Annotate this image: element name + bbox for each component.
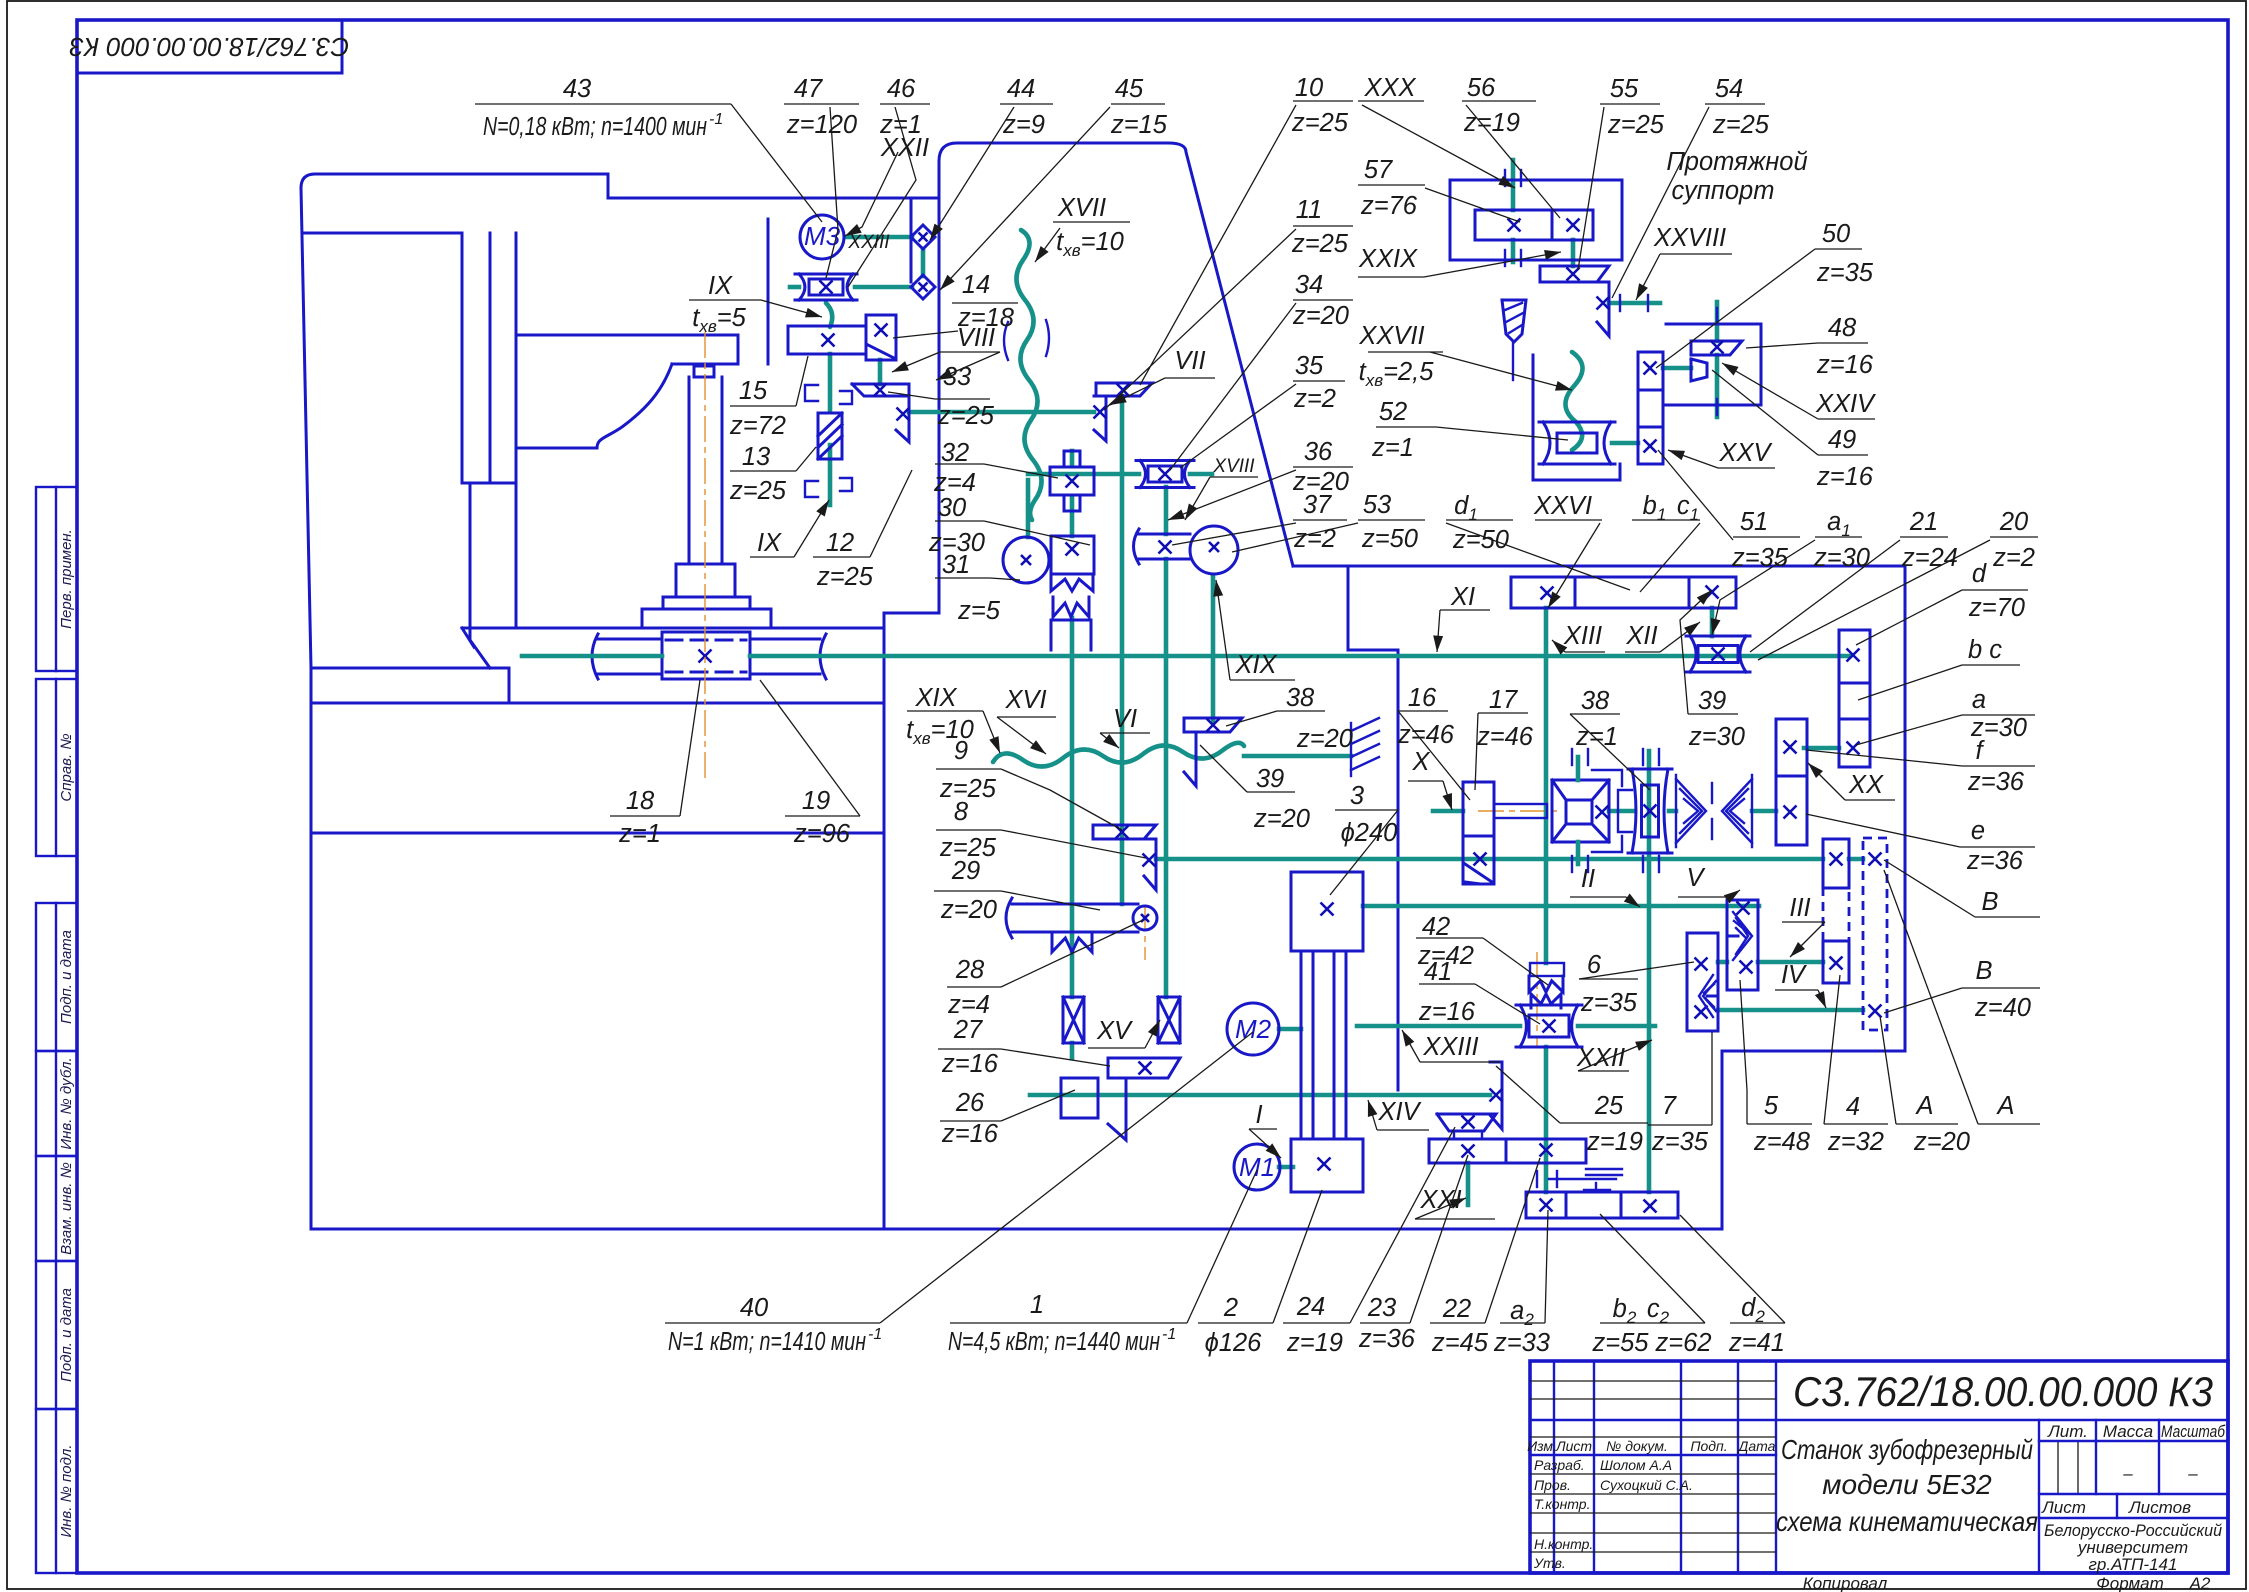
shaft XIV: [1030, 1093, 1490, 1098]
motor M2: [1227, 1003, 1279, 1055]
svg-text:XIX: XIX: [914, 684, 957, 712]
bed inner line: [311, 832, 884, 835]
broach screw upper: [1511, 160, 1516, 210]
svg-text:№ докум.: № докум.: [1606, 1438, 1668, 1454]
coupling link: [921, 249, 926, 276]
svg-text:Лит.: Лит.: [2047, 1422, 2088, 1441]
gear column 51 z=35: [1638, 352, 1663, 464]
svg-text:43: 43: [563, 75, 591, 103]
shaft III: [1718, 960, 1727, 965]
shaft XXIV vertical: [1715, 302, 1720, 341]
svg-text:17: 17: [1489, 686, 1518, 714]
svg-text:Станок зубофрезерный: Станок зубофрезерный: [1781, 1434, 2033, 1465]
bearing ticks XXVIII: [1619, 295, 1621, 311]
svg-text:z=30: z=30: [1813, 544, 1870, 572]
svg-text:z=96: z=96: [793, 820, 851, 848]
svg-text:IX: IX: [708, 272, 733, 300]
motor M1: [1234, 1144, 1280, 1190]
svg-text:XXVIII: XXVIII: [1653, 224, 1726, 252]
svg-text:z=15: z=15: [1110, 111, 1168, 139]
vertical shaft XV (screw): [1070, 618, 1075, 997]
svg-text:гр.АТП-141: гр.АТП-141: [2089, 1555, 2178, 1574]
svg-text:z=36: z=36: [1966, 847, 2024, 875]
svg-text:XVII: XVII: [1057, 194, 1106, 222]
svg-text:21: 21: [1909, 508, 1938, 536]
svg-text:XIV: XIV: [1377, 1098, 1421, 1126]
bed top edge: [311, 702, 884, 705]
svg-text:М2: М2: [1235, 1014, 1272, 1044]
screw nut right XV: [1158, 997, 1180, 1043]
svg-text:A: A: [1914, 1092, 1933, 1120]
svg-text:XX: XX: [1848, 771, 1884, 799]
svg-text:8: 8: [954, 798, 969, 826]
svg-text:z=16: z=16: [1418, 998, 1476, 1026]
svg-text:48: 48: [1828, 314, 1857, 342]
svg-text:z=46: z=46: [1476, 723, 1534, 751]
cantilever arm: [516, 335, 738, 364]
svg-text:40: 40: [740, 1294, 768, 1322]
svg-text:31: 31: [942, 551, 970, 579]
svg-text:z=40: z=40: [1974, 994, 2031, 1022]
bevel gear 33 z=25 flag: [852, 384, 909, 396]
svg-text:суппорт: суппорт: [1672, 177, 1775, 205]
gear block XIII-XII (d1,b1c1,a1): [1511, 577, 1736, 608]
gear 51 to bevel 49 link: [1663, 366, 1691, 371]
svg-text:9: 9: [954, 737, 968, 765]
svg-text:XXX: XXX: [1363, 74, 1416, 102]
belt: [1300, 951, 1303, 1139]
svg-text:С3.762/18.00.00.000 К3: С3.762/18.00.00.000 К3: [69, 32, 349, 62]
svg-text:z=19: z=19: [1586, 1128, 1643, 1156]
svg-text:14: 14: [962, 271, 990, 299]
bevel gear 25 plate: [1490, 1062, 1502, 1129]
support housing right: [1666, 324, 1761, 405]
table shaft cylinder: [598, 638, 662, 641]
svg-text:XXIX: XXIX: [1358, 245, 1418, 273]
gear block 16-17: [1463, 782, 1494, 884]
svg-text:z=55 z=62: z=55 z=62: [1591, 1329, 1711, 1357]
leader lines: [731, 104, 822, 222]
svg-text:52: 52: [1379, 398, 1407, 426]
bevel pair VII flag: [1096, 383, 1152, 396]
bearing ticks around cardan: [1571, 749, 1573, 765]
gear 32 z=4 cross: [1050, 467, 1094, 495]
svg-text:Лист: Лист: [2041, 1498, 2086, 1517]
machine column: [461, 233, 464, 483]
svg-text:45: 45: [1115, 75, 1144, 103]
svg-text:z=48: z=48: [1753, 1128, 1811, 1156]
gear block f-e on XX: [1776, 719, 1807, 845]
svg-text:Подп. и дата: Подп. и дата: [58, 1288, 75, 1382]
svg-text:VII: VII: [1174, 347, 1205, 375]
svg-text:М3: М3: [804, 221, 841, 251]
gear 26 centerline: [1050, 1094, 1112, 1096]
svg-text:z=50: z=50: [1452, 526, 1509, 554]
rack sleeve 29 z=20: [1012, 903, 1138, 906]
worm wheel 41 z=16: [1516, 1005, 1582, 1047]
svg-text:56: 56: [1467, 74, 1496, 102]
svg-text:Инв. № подл.: Инв. № подл.: [58, 1444, 75, 1537]
svg-text:XIX: XIX: [1234, 651, 1277, 679]
shaft V stub to gearbox B: [1849, 857, 1863, 862]
svg-text:z=72: z=72: [729, 412, 786, 440]
shaft of worm wheel 47: [855, 285, 912, 290]
svg-text:13: 13: [742, 443, 770, 471]
vertical shaft XVIII-XIX link: [1164, 487, 1169, 534]
gear block 6-7: [1687, 933, 1718, 1031]
svg-text:Взам. инв. №: Взам. инв. №: [58, 1162, 75, 1255]
svg-text:z=20: z=20: [1292, 302, 1349, 330]
svg-text:XVIII: XVIII: [1212, 456, 1255, 477]
svg-text:Справ. №: Справ. №: [58, 733, 75, 801]
svg-text:Протяжной: Протяжной: [1666, 148, 1807, 176]
svg-text:Разраб.: Разраб.: [1534, 1457, 1585, 1473]
ratchet clamp under 30: [1051, 574, 1093, 591]
svg-text:XXIII: XXIII: [1422, 1033, 1478, 1061]
bearing ticks XXIV: [1716, 308, 1718, 324]
left margin box: Перв. примен.: [36, 487, 77, 671]
svg-text:z=33: z=33: [1493, 1329, 1550, 1357]
table platform: [462, 627, 884, 630]
svg-text:19: 19: [802, 787, 830, 815]
svg-text:d: d: [1972, 560, 1987, 588]
svg-text:z=120: z=120: [786, 111, 857, 139]
vertical screw IX: [828, 354, 833, 412]
u-joint housing brackets: [1592, 770, 1622, 786]
gear block XXI (gears 23-22): [1429, 1139, 1586, 1163]
gear row stem XXI: [1466, 1163, 1471, 1205]
bevel gear 14 z=18: [866, 315, 896, 360]
svg-text:Перв. примен.: Перв. примен.: [58, 529, 75, 629]
svg-text:a: a: [1972, 686, 1986, 714]
svg-text:II: II: [1581, 865, 1595, 893]
svg-text:41: 41: [1424, 958, 1452, 986]
gear 28 centerline: [1144, 905, 1146, 960]
svg-text:I: I: [1255, 1101, 1262, 1129]
svg-text:z=50: z=50: [1361, 525, 1418, 553]
gear 56 stem: [1571, 240, 1576, 266]
shaft IV: [1718, 1008, 1863, 1013]
svg-text:z=16: z=16: [941, 1120, 999, 1148]
worm wheel 52 z=1: [1539, 422, 1615, 464]
svg-text:42: 42: [1422, 913, 1450, 941]
svg-text:37: 37: [1303, 491, 1332, 519]
dashed gear column B: [1863, 838, 1887, 1030]
svg-text:46: 46: [887, 75, 916, 103]
document number stamp (rotated): [77, 20, 342, 73]
svg-text:Листов: Листов: [2128, 1498, 2191, 1517]
svg-text:Пров.: Пров.: [1534, 1477, 1571, 1493]
svg-text:Масштаб: Масштаб: [2161, 1422, 2226, 1441]
clamp under 29: [1052, 932, 1092, 952]
svg-text:z=1: z=1: [1371, 434, 1414, 462]
work spindle: [688, 377, 691, 564]
bevel 48 z=16 flag: [1691, 341, 1742, 355]
svg-text:z=24: z=24: [1901, 544, 1958, 572]
bearing ticks broach screw: [1504, 170, 1506, 186]
left margin box: Инв. № дубл.: [36, 1051, 77, 1156]
friction clutch symbols: [1536, 1171, 1538, 1187]
svg-text:XXVII: XXVII: [1358, 322, 1424, 350]
svg-text:Формат: Формат: [2096, 1574, 2164, 1592]
svg-text:XI: XI: [1450, 583, 1475, 611]
svg-text:30: 30: [938, 494, 966, 522]
svg-text:26: 26: [955, 1089, 985, 1117]
svg-text:24: 24: [1296, 1293, 1325, 1321]
svg-text:z=19: z=19: [1286, 1329, 1343, 1357]
svg-text:18: 18: [626, 787, 655, 815]
coupling (lower): [911, 275, 935, 299]
svg-text:44: 44: [1007, 75, 1035, 103]
clamp box: [1051, 620, 1091, 650]
svg-text:V: V: [1686, 864, 1705, 892]
svg-text:Копировал: Копировал: [1803, 1574, 1888, 1592]
shaft XVI right end: [1244, 754, 1351, 759]
bevel gear 33 plate: [896, 396, 909, 442]
gear 53 circle z=50: [1190, 526, 1238, 574]
svg-text:b c: b c: [1968, 636, 2002, 664]
svg-text:Изм.: Изм.: [1527, 1438, 1557, 1454]
cardan line segments: [1609, 809, 1634, 814]
svg-text:2: 2: [1223, 1294, 1238, 1322]
svg-text:51: 51: [1740, 508, 1768, 536]
svg-text:-1: -1: [709, 111, 723, 128]
screw nut left XV: [1063, 997, 1084, 1043]
svg-text:Утв.: Утв.: [1533, 1555, 1566, 1571]
svg-text:z=30: z=30: [1688, 723, 1745, 751]
machine bed outline: [301, 188, 1905, 1229]
coupling (upper): [911, 225, 935, 249]
gear 30 z=30 block: [1051, 536, 1094, 574]
svg-text:38: 38: [1286, 684, 1315, 712]
svg-text:z=2: z=2: [1992, 544, 2035, 572]
worm XVII (vertical wavy): [1016, 230, 1041, 520]
svg-text:IV: IV: [1781, 961, 1807, 989]
svg-text:A: A: [1995, 1092, 2014, 1120]
u-joint trunnion stubs: [1576, 757, 1581, 780]
base plinth: [311, 668, 509, 703]
svg-text:28: 28: [955, 956, 985, 984]
gear block 57-56: [1475, 210, 1593, 240]
svg-text:29: 29: [951, 857, 980, 885]
svg-text:z=19: z=19: [1463, 109, 1520, 137]
sleeve gear 37 z=2: [1139, 533, 1190, 536]
worm wheel 47 z=120: [795, 274, 857, 300]
svg-text:z=4: z=4: [933, 469, 976, 497]
svg-text:z=25: z=25: [816, 563, 874, 591]
svg-text:X: X: [1411, 748, 1430, 776]
svg-text:z=5: z=5: [957, 597, 1001, 625]
svg-text:XXII: XXII: [1576, 1044, 1625, 1072]
svg-text:z=76: z=76: [1360, 192, 1418, 220]
svg-text:XXIII: XXIII: [847, 232, 890, 253]
svg-text:Дата: Дата: [1737, 1438, 1776, 1454]
left margin box: Подп. и дата: [36, 1261, 77, 1409]
sliding gear 38 z=1 (worm): [1628, 769, 1672, 853]
vertical shaft of gears 42-41: [1544, 608, 1549, 656]
svg-text:XXIV: XXIV: [1815, 390, 1876, 418]
worm IX arc: [826, 303, 832, 327]
gear block IV-A: [1823, 839, 1849, 888]
electromagnetic clutch 13: [818, 413, 842, 459]
svg-text:С3.762/18.00.00.000 К3: С3.762/18.00.00.000 К3: [1793, 1368, 2213, 1415]
shaft II: [1363, 904, 1759, 909]
gear block a2-b2c2-d2: [1526, 1192, 1678, 1218]
shaft X stub: [1433, 809, 1463, 814]
universal joint: [1552, 780, 1609, 842]
svg-text:39: 39: [1698, 687, 1726, 715]
vertical shaft XXII: [1647, 751, 1652, 1192]
svg-text:7: 7: [1662, 1092, 1677, 1120]
svg-text:z=16: z=16: [941, 1050, 999, 1078]
gearbox enclosure left wall: [884, 612, 939, 615]
svg-text:z=32: z=32: [1827, 1128, 1884, 1156]
svg-text:z=4: z=4: [947, 991, 990, 1019]
worm XXVII (S-curve): [1565, 352, 1582, 450]
svg-text:z=25: z=25: [1291, 230, 1349, 258]
svg-text:IX: IX: [757, 529, 782, 557]
svg-text:XIII: XIII: [1563, 622, 1602, 650]
svg-text:47: 47: [794, 75, 823, 103]
differential bevel cluster: [1676, 779, 1706, 843]
shaft XXIII horizontal: [1357, 1024, 1520, 1029]
machine head tower: [939, 143, 1293, 566]
index worm wheel 19 box: [662, 632, 750, 679]
svg-text:z=20: z=20: [940, 896, 997, 924]
gear engagement arcs near worm XVII: [1004, 322, 1008, 360]
worm wheel 21 z=24: [1686, 636, 1750, 672]
svg-text:XVI: XVI: [1004, 686, 1046, 714]
svg-text:38: 38: [1581, 687, 1610, 715]
svg-text:z=25: z=25: [1607, 111, 1665, 139]
svg-text:55: 55: [1610, 75, 1639, 103]
vertical link gear 37 to shaft XI: [1211, 576, 1216, 722]
svg-text:z=25: z=25: [729, 477, 787, 505]
svg-text:–: –: [2187, 1464, 2198, 1483]
bevel gear 38 z=20 flag: [1184, 718, 1242, 732]
bevel gear 27 flag: [1108, 1058, 1180, 1078]
motor M3: [800, 215, 844, 259]
svg-text:z=20: z=20: [1253, 805, 1310, 833]
svg-text:34: 34: [1295, 271, 1323, 299]
bevel 27 plate: [1108, 1078, 1126, 1140]
gear 32 stem: [1070, 451, 1075, 465]
worm wheel on VIII (gears 35-36): [1136, 461, 1194, 488]
left margin box: Взам. инв. №: [36, 1156, 77, 1261]
svg-text:6: 6: [1587, 951, 1602, 979]
svg-text:z=36: z=36: [1358, 1325, 1416, 1353]
svg-text:z=2: z=2: [1293, 385, 1336, 413]
svg-text:Т.контр.: Т.контр.: [1534, 1496, 1590, 1512]
machine roof band: [301, 174, 315, 188]
svg-text:-1: -1: [868, 1326, 882, 1343]
shaft XXIII from M3: [845, 235, 912, 240]
svg-text:z=41: z=41: [1728, 1329, 1785, 1357]
svg-text:5: 5: [1764, 1092, 1779, 1120]
svg-text:z=70: z=70: [1968, 594, 2025, 622]
bevel gear 24 flag: [1437, 1114, 1496, 1131]
svg-text:z=35: z=35: [1731, 544, 1789, 572]
svg-text:А2: А2: [2189, 1574, 2211, 1592]
svg-text:32: 32: [941, 439, 969, 467]
svg-text:N=0,18 кВт; n=1400 мин: N=0,18 кВт; n=1400 мин: [483, 113, 707, 141]
left margin box: Справ. №: [36, 679, 77, 856]
svg-text:XII: XII: [1625, 622, 1657, 650]
svg-text:16: 16: [1408, 684, 1437, 712]
shaft VII: [909, 410, 1094, 415]
svg-text:Н.контр.: Н.контр.: [1534, 1536, 1593, 1552]
svg-text:10: 10: [1295, 74, 1323, 102]
svg-text:23: 23: [1367, 1294, 1396, 1322]
svg-text:z=16: z=16: [1816, 351, 1874, 379]
svg-text:-1: -1: [1162, 1326, 1176, 1343]
svg-text:М1: М1: [1239, 1152, 1275, 1182]
svg-text:z=36: z=36: [1967, 768, 2025, 796]
shaft X sleeve: [1494, 804, 1547, 818]
pinion 28 z=4: [1133, 906, 1157, 930]
svg-text:57: 57: [1364, 156, 1393, 184]
motor M1 shaft I: [1279, 1165, 1293, 1170]
svg-text:25: 25: [1594, 1092, 1624, 1120]
svg-text:20: 20: [1999, 508, 2028, 536]
svg-text:36: 36: [1304, 438, 1333, 466]
shaft V: [1156, 857, 1823, 862]
svg-text:ϕ240: ϕ240: [1341, 819, 1398, 847]
shaft XII stub: [1710, 608, 1715, 636]
svg-text:z=20: z=20: [1296, 725, 1353, 753]
cardan centerline: [1478, 810, 1560, 812]
svg-text:z=25: z=25: [1712, 111, 1770, 139]
claw clutch 42 centerline: [1536, 952, 1538, 1046]
svg-text:35: 35: [1295, 352, 1324, 380]
svg-text:e: e: [1971, 817, 1985, 845]
svg-text:4: 4: [1846, 1093, 1860, 1121]
bevel gears 8-9 bracket flag: [1093, 825, 1156, 839]
svg-text:z=35: z=35: [1651, 1128, 1709, 1156]
bevel gear 39 z=20 plate: [1184, 732, 1196, 786]
svg-text:N=4,5 кВт; n=1440 мин: N=4,5 кВт; n=1440 мин: [948, 1328, 1160, 1356]
belt pulley 2 (lower): [1291, 1139, 1363, 1192]
svg-text:Подп. и дата: Подп. и дата: [58, 930, 75, 1024]
svg-text:z=25: z=25: [937, 402, 995, 430]
shaft XXVIII: [1609, 301, 1660, 306]
broach support housing: [1450, 180, 1622, 260]
svg-text:54: 54: [1715, 75, 1743, 103]
svg-text:B: B: [1981, 888, 1998, 916]
svg-text:XXVI: XXVI: [1533, 492, 1592, 520]
svg-text:z=45: z=45: [1431, 1329, 1489, 1357]
svg-text:–: –: [2122, 1464, 2133, 1483]
svg-text:z=1: z=1: [1575, 723, 1618, 751]
bevel link 14-33: [878, 360, 883, 384]
gear column d-b-c-a: [1839, 630, 1870, 767]
feed drive housing: [767, 219, 770, 364]
svg-text:22: 22: [1442, 1295, 1471, 1323]
svg-text:z=25: z=25: [1291, 109, 1349, 137]
bevel 54 plate: [1597, 282, 1609, 336]
bevel pair VII plate: [1094, 396, 1106, 441]
motor M2 shaft: [1279, 1027, 1301, 1032]
svg-text:53: 53: [1363, 491, 1391, 519]
svg-text:модели 5Е32: модели 5Е32: [1822, 1469, 1992, 1500]
left margin box: Подп. и дата: [36, 903, 77, 1051]
svg-text:III: III: [1789, 894, 1810, 922]
roof band lower edge: [303, 232, 462, 235]
bevel gear 55 flag: [1540, 266, 1609, 282]
title block: [1530, 1361, 2228, 1573]
svg-text:схема кинематическая: схема кинематическая: [1776, 1506, 2038, 1537]
svg-text:XV: XV: [1096, 1017, 1133, 1045]
